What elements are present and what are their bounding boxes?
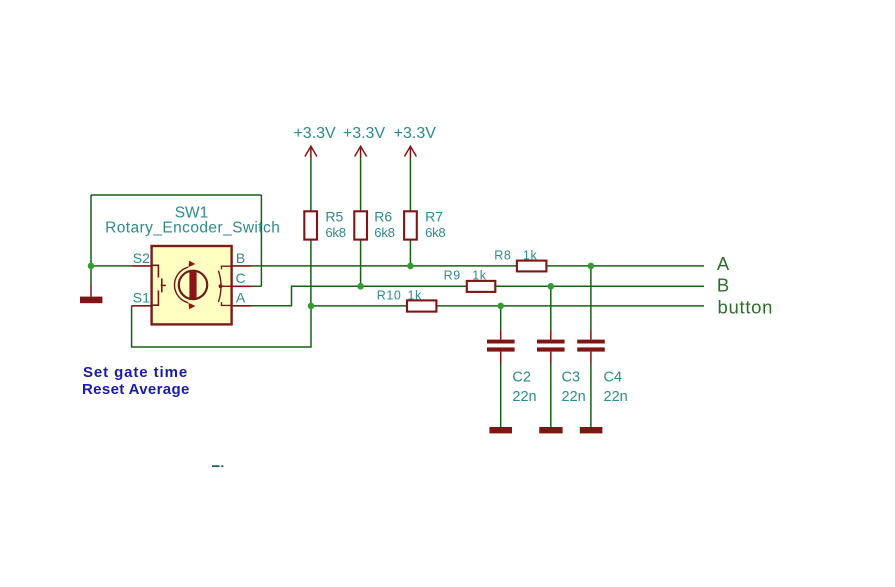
svg-text:B: B [717,274,729,295]
svg-text:A: A [717,253,730,274]
wire net button [311,305,704,307]
svg-text:R7: R7 [425,208,443,224]
svg-text:R10: R10 [377,289,402,303]
svg-text:C2: C2 [512,369,531,385]
wire net A (top row) [252,265,704,267]
wire power to R6 [360,158,362,211]
power symbol +3.3V (left) [293,125,336,158]
svg-text:22n: 22n [604,389,628,405]
resistor R6 [354,208,394,240]
wire S1 loop [132,306,311,347]
resistor R5 [304,208,345,240]
wire net B (A-pin jog row) [252,286,704,306]
pin A [232,305,252,307]
svg-text:1k: 1k [472,268,487,282]
capacitor C3 [537,340,586,405]
SW1 detent arc [218,271,221,302]
SW1 rotation arrowhead bottom [188,303,195,309]
svg-text:+3.3V: +3.3V [394,125,437,142]
capacitor C4 [577,340,628,405]
svg-text:A: A [236,289,246,305]
pin S2 [132,265,152,267]
wire C2 drop [500,306,502,330]
svg-text:1k: 1k [523,249,538,263]
ground symbol C4 [580,427,603,433]
svg-text:6k8: 6k8 [425,225,445,240]
pin S1 [132,305,152,307]
resistor R7 [404,208,445,240]
SW1 knob slot bar [189,271,196,298]
power symbol +3.3V (right) [394,125,437,158]
wire C4 to ground [590,352,592,364]
pin B [232,265,252,267]
svg-text:6k8: 6k8 [325,225,345,240]
SW1 bracket pin B [222,266,232,269]
SW1 wiper dot [219,284,223,288]
ground symbol C3 [539,427,562,433]
wire R7 to A net [409,240,411,266]
svg-text:S1: S1 [133,289,150,305]
svg-text:1k: 1k [408,289,423,303]
rotary encoder switch SW1 [105,204,280,324]
resistor R10 [377,289,437,312]
resistor R9 [444,268,496,292]
svg-text:+3.3V: +3.3V [343,125,386,142]
svg-text:Rotary_Encoder_Switch: Rotary_Encoder_Switch [105,219,280,236]
wire C pin to loop [252,285,262,287]
wire top loop right vertical to C pin [260,195,262,286]
ground symbol left [80,284,102,303]
junction R6/B net [357,283,364,290]
junction C4/A net [588,263,595,270]
wire C2 to ground [500,352,502,364]
capacitor C2 [487,340,537,405]
junction C2/button net [497,303,504,310]
wire junction down to ground [90,266,92,284]
SW1 rotary knob circle [179,271,207,299]
wire junction to S2 [91,265,132,267]
wire power to R5 [310,158,312,211]
wire top loop horizontal [91,194,261,196]
svg-text:Set gate time: Set gate time [83,364,188,381]
SW1 rotation arc [174,267,188,303]
svg-text:C4: C4 [604,369,623,385]
wire top loop left vertical [90,195,92,266]
svg-text:22n: 22n [512,389,536,405]
svg-text:C3: C3 [562,369,581,385]
junction R5/button net [308,303,315,310]
SW1 wiper line to C [221,285,232,287]
svg-text:R6: R6 [374,208,392,224]
power symbol +3.3V (middle) [343,125,386,158]
svg-text:22n: 22n [562,389,586,405]
ground symbol C2 [489,427,512,433]
svg-text:+3.3V: +3.3V [293,125,336,142]
svg-text:R9: R9 [444,268,461,282]
wire C4 drop [590,266,592,330]
wire C3 drop [550,286,552,330]
resistor R8 [494,249,546,272]
junction R7/A net [407,263,414,270]
junction at ground/S2 [88,263,95,270]
svg-text:Reset Average: Reset Average [82,381,190,398]
junction C3/B net [548,283,555,290]
wire R5 to button net [310,240,312,306]
wire C3 to ground [550,352,552,364]
svg-text:button: button [718,297,774,318]
svg-text:C: C [235,270,245,286]
svg-text:R8: R8 [494,249,511,263]
wire R6 to B net [360,240,362,287]
artifact dash [212,465,220,467]
SW1 push switch contacts [152,265,166,305]
svg-text:6k8: 6k8 [374,225,394,240]
svg-text:R5: R5 [325,208,343,224]
artifact dot [221,465,223,467]
SW1 rotation arrowhead top [188,261,195,267]
svg-text:S2: S2 [133,250,150,266]
wire power to R7 [409,158,411,211]
pin C [232,285,252,287]
svg-text:B: B [236,250,245,266]
SW1 bracket pin A [222,302,232,305]
